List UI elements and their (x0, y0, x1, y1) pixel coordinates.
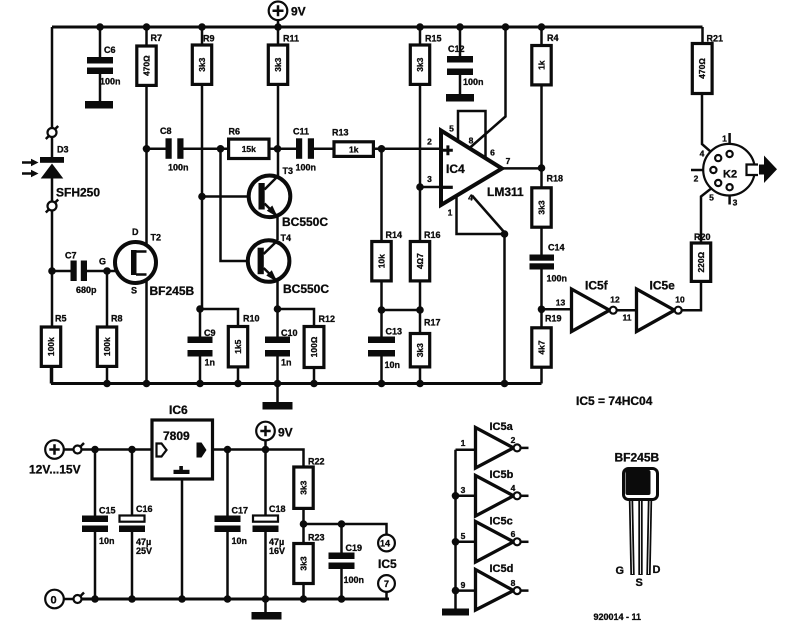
svg-text:3k3: 3k3 (273, 57, 283, 71)
svg-text:R17: R17 (424, 318, 441, 328)
svg-text:R22: R22 (308, 457, 325, 467)
svg-text:D: D (132, 227, 139, 237)
svg-text:R7: R7 (151, 33, 163, 43)
svg-text:R23: R23 (308, 533, 325, 543)
svg-text:IC5c: IC5c (490, 516, 513, 528)
svg-text:10: 10 (675, 295, 685, 305)
svg-text:S: S (636, 577, 643, 589)
svg-text:3: 3 (461, 485, 466, 495)
svg-text:IC4: IC4 (446, 162, 465, 176)
svg-text:D: D (653, 564, 661, 576)
svg-text:5: 5 (461, 531, 466, 541)
svg-text:S: S (131, 286, 137, 296)
svg-text:R5: R5 (55, 314, 67, 324)
svg-text:R18: R18 (547, 174, 564, 184)
svg-text:IC5e: IC5e (650, 279, 676, 293)
svg-text:9V: 9V (278, 426, 293, 440)
svg-text:BC550C: BC550C (283, 282, 329, 296)
svg-text:IC5 = 74HC04: IC5 = 74HC04 (576, 394, 653, 408)
svg-text:470Ω: 470Ω (697, 58, 707, 79)
svg-text:100k: 100k (46, 337, 56, 356)
svg-text:R4: R4 (547, 33, 559, 43)
svg-text:100n: 100n (547, 274, 568, 284)
svg-text:6: 6 (511, 529, 516, 539)
svg-text:12V...15V: 12V...15V (29, 463, 81, 477)
svg-text:G: G (616, 565, 625, 577)
svg-text:9V: 9V (291, 5, 306, 19)
svg-text:C8: C8 (160, 126, 172, 136)
svg-text:C13: C13 (386, 327, 403, 337)
svg-text:0: 0 (51, 595, 57, 607)
svg-text:C17: C17 (232, 506, 249, 516)
svg-text:IC5f: IC5f (585, 279, 609, 293)
svg-text:5: 5 (449, 124, 454, 134)
svg-text:3: 3 (427, 174, 432, 184)
svg-text:T3: T3 (283, 166, 294, 176)
svg-text:3k3: 3k3 (299, 480, 309, 494)
svg-text:7: 7 (506, 156, 511, 166)
svg-text:100k: 100k (102, 337, 112, 356)
svg-text:C18: C18 (269, 504, 286, 514)
svg-text:C14: C14 (548, 243, 565, 253)
svg-text:K2: K2 (723, 169, 737, 181)
svg-text:10n: 10n (99, 536, 115, 546)
svg-text:100n: 100n (296, 163, 317, 173)
svg-text:10n: 10n (385, 360, 401, 370)
svg-text:BF245B: BF245B (150, 284, 195, 298)
svg-text:1k: 1k (537, 60, 547, 70)
svg-text:IC5b: IC5b (490, 469, 514, 481)
svg-text:3k3: 3k3 (415, 57, 425, 71)
svg-text:C6: C6 (104, 45, 116, 55)
svg-text:2: 2 (694, 174, 699, 184)
svg-text:9: 9 (461, 580, 466, 590)
svg-text:4k7: 4k7 (537, 340, 547, 354)
svg-text:1k5: 1k5 (233, 339, 243, 353)
svg-text:10n: 10n (232, 536, 248, 546)
svg-text:C15: C15 (99, 506, 116, 516)
svg-text:C7: C7 (65, 251, 77, 261)
svg-text:7809: 7809 (163, 429, 190, 443)
svg-text:1k: 1k (349, 144, 359, 154)
svg-text:100n: 100n (100, 77, 121, 87)
svg-text:6: 6 (490, 148, 495, 158)
svg-text:IC5a: IC5a (490, 421, 514, 433)
svg-text:R14: R14 (386, 230, 403, 240)
svg-text:D3: D3 (57, 145, 69, 155)
svg-text:14: 14 (380, 539, 390, 549)
svg-text:13: 13 (556, 298, 566, 308)
svg-text:1: 1 (448, 208, 453, 218)
svg-text:2: 2 (427, 137, 432, 147)
svg-text:C10: C10 (281, 328, 298, 338)
svg-text:R6: R6 (229, 127, 241, 137)
svg-text:100n: 100n (463, 77, 484, 87)
svg-text:100n: 100n (168, 163, 189, 173)
svg-text:4: 4 (511, 483, 516, 493)
svg-text:BF245B: BF245B (615, 451, 660, 465)
svg-text:1: 1 (722, 134, 727, 144)
svg-text:BC550C: BC550C (282, 215, 328, 229)
svg-text:16V: 16V (269, 546, 285, 556)
svg-text:C12: C12 (448, 44, 465, 54)
svg-text:3k3: 3k3 (197, 57, 207, 71)
svg-text:R8: R8 (111, 314, 123, 324)
svg-text:R12: R12 (319, 314, 336, 324)
svg-text:220Ω: 220Ω (696, 251, 706, 272)
svg-text:C19: C19 (346, 543, 363, 553)
svg-text:10k: 10k (377, 254, 387, 268)
svg-text:25V: 25V (136, 546, 152, 556)
svg-text:R21: R21 (707, 34, 724, 44)
svg-text:680p: 680p (76, 285, 97, 295)
svg-text:R16: R16 (424, 230, 441, 240)
svg-text:100Ω: 100Ω (309, 336, 319, 357)
svg-text:C9: C9 (204, 328, 216, 338)
svg-text:R20: R20 (694, 232, 711, 242)
svg-text:4Ω7: 4Ω7 (415, 253, 425, 269)
svg-text:T4: T4 (281, 233, 292, 243)
svg-text:4: 4 (700, 149, 705, 159)
svg-text:C16: C16 (136, 504, 153, 514)
svg-text:3k3: 3k3 (537, 200, 547, 214)
svg-text:8: 8 (469, 136, 474, 146)
svg-text:R9: R9 (203, 34, 215, 44)
svg-text:IC6: IC6 (169, 403, 188, 417)
svg-text:IC5: IC5 (378, 557, 397, 571)
svg-text:8: 8 (511, 578, 516, 588)
svg-text:LM311: LM311 (487, 185, 524, 199)
svg-text:3k3: 3k3 (299, 556, 309, 570)
svg-text:1: 1 (461, 438, 466, 448)
svg-text:R13: R13 (332, 128, 349, 138)
svg-text:15k: 15k (242, 144, 256, 154)
svg-text:11: 11 (623, 313, 632, 323)
svg-text:5: 5 (709, 193, 714, 203)
svg-text:3: 3 (733, 198, 738, 208)
svg-text:R15: R15 (425, 34, 442, 44)
svg-text:470Ω: 470Ω (142, 55, 152, 76)
svg-text:100n: 100n (344, 575, 365, 585)
svg-text:R10: R10 (243, 314, 260, 324)
svg-text:1n: 1n (205, 358, 216, 368)
svg-text:G: G (99, 257, 106, 267)
svg-text:SFH250: SFH250 (56, 186, 100, 200)
svg-text:920014 - 11: 920014 - 11 (594, 612, 642, 622)
svg-text:3k3: 3k3 (415, 343, 425, 357)
svg-text:2: 2 (511, 435, 516, 445)
svg-text:C11: C11 (293, 127, 309, 137)
svg-text:IC5d: IC5d (490, 563, 514, 575)
svg-text:R11: R11 (283, 34, 299, 44)
svg-text:4: 4 (468, 193, 473, 203)
svg-text:12: 12 (610, 295, 620, 305)
svg-text:R19: R19 (545, 314, 562, 324)
svg-text:T2: T2 (151, 233, 162, 243)
svg-text:1n: 1n (281, 358, 292, 368)
svg-text:7: 7 (384, 579, 389, 589)
